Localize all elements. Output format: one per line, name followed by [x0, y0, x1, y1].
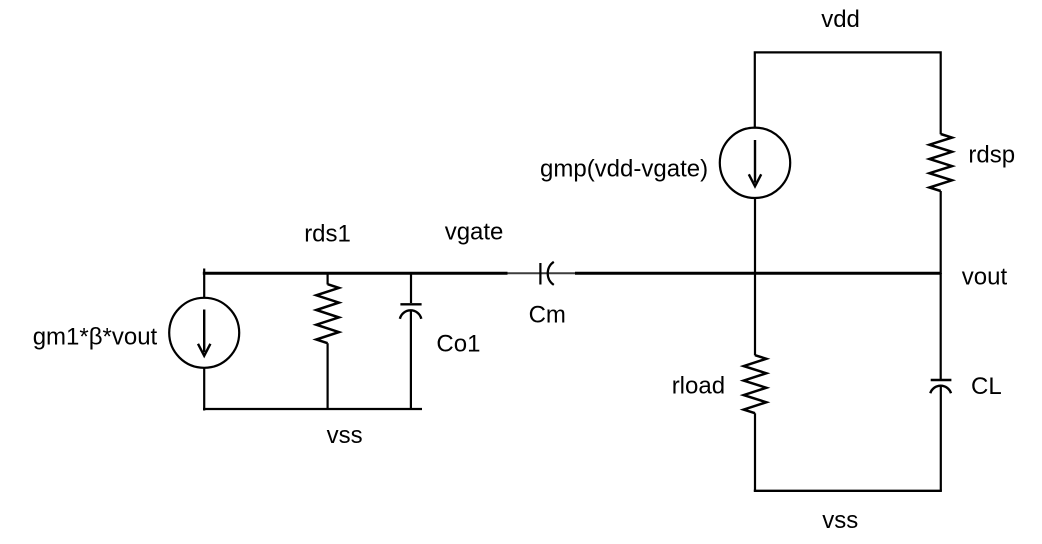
current source I1 (gm1*beta*vout) — [169, 298, 239, 368]
svg-text:rload: rload — [672, 373, 725, 400]
label rds1 — [304, 221, 351, 248]
svg-text:Co1: Co1 — [436, 331, 480, 358]
label gmp(vdd-vgate) — [540, 156, 708, 183]
label vdd — [821, 6, 860, 33]
label gm1*b*vout — [33, 324, 158, 351]
svg-text:vss: vss — [327, 422, 363, 449]
wire vss: bottom wire of left block — [203, 408, 422, 410]
label rload — [672, 373, 725, 400]
label vgate — [445, 218, 504, 245]
wire: below current source I1 — [203, 368, 205, 411]
wire: right branch from vout down to CL — [940, 273, 942, 379]
capacitor Co1 — [400, 272, 422, 410]
capacitor Cm — [540, 262, 553, 285]
label Co1 — [436, 331, 480, 358]
current source I2 (gmp) — [720, 128, 790, 198]
wire: gray segment under capacitor Cm — [508, 272, 576, 274]
svg-text:gm1*β*vout: gm1*β*vout — [33, 324, 158, 351]
svg-text:CL: CL — [971, 373, 1002, 400]
svg-text:gmp(vdd-vgate): gmp(vdd-vgate) — [540, 156, 708, 183]
svg-text:Cm: Cm — [529, 302, 566, 329]
svg-text:vdd: vdd — [821, 6, 860, 33]
wire vgate: top-left horizontal wire from gm1 source to Cm — [203, 272, 508, 275]
wire vss: bottom rail of right block — [754, 490, 942, 492]
label vss right — [822, 507, 858, 534]
svg-text:vgate: vgate — [445, 218, 504, 245]
wire: below current source I2 down to rload — [754, 198, 756, 355]
label CL — [971, 373, 1002, 400]
svg-text:vout: vout — [962, 264, 1008, 291]
label vss left — [327, 422, 363, 449]
wire vout: horizontal wire from Cm to right branch — [575, 272, 941, 275]
label Cm — [529, 302, 566, 329]
resistor rload — [744, 355, 767, 491]
label rdsp — [968, 142, 1015, 169]
svg-text:rds1: rds1 — [304, 221, 351, 248]
capacitor CL — [930, 380, 951, 492]
svg-text:vss: vss — [822, 507, 858, 534]
resistor rdsp — [929, 134, 952, 274]
wire: left branch from top wire down to current source — [203, 269, 205, 299]
resistor rds1 — [316, 272, 339, 410]
wire vdd: top rail of right block with corner drops — [755, 52, 941, 134]
label vout — [962, 264, 1008, 291]
svg-text:rdsp: rdsp — [968, 142, 1015, 169]
